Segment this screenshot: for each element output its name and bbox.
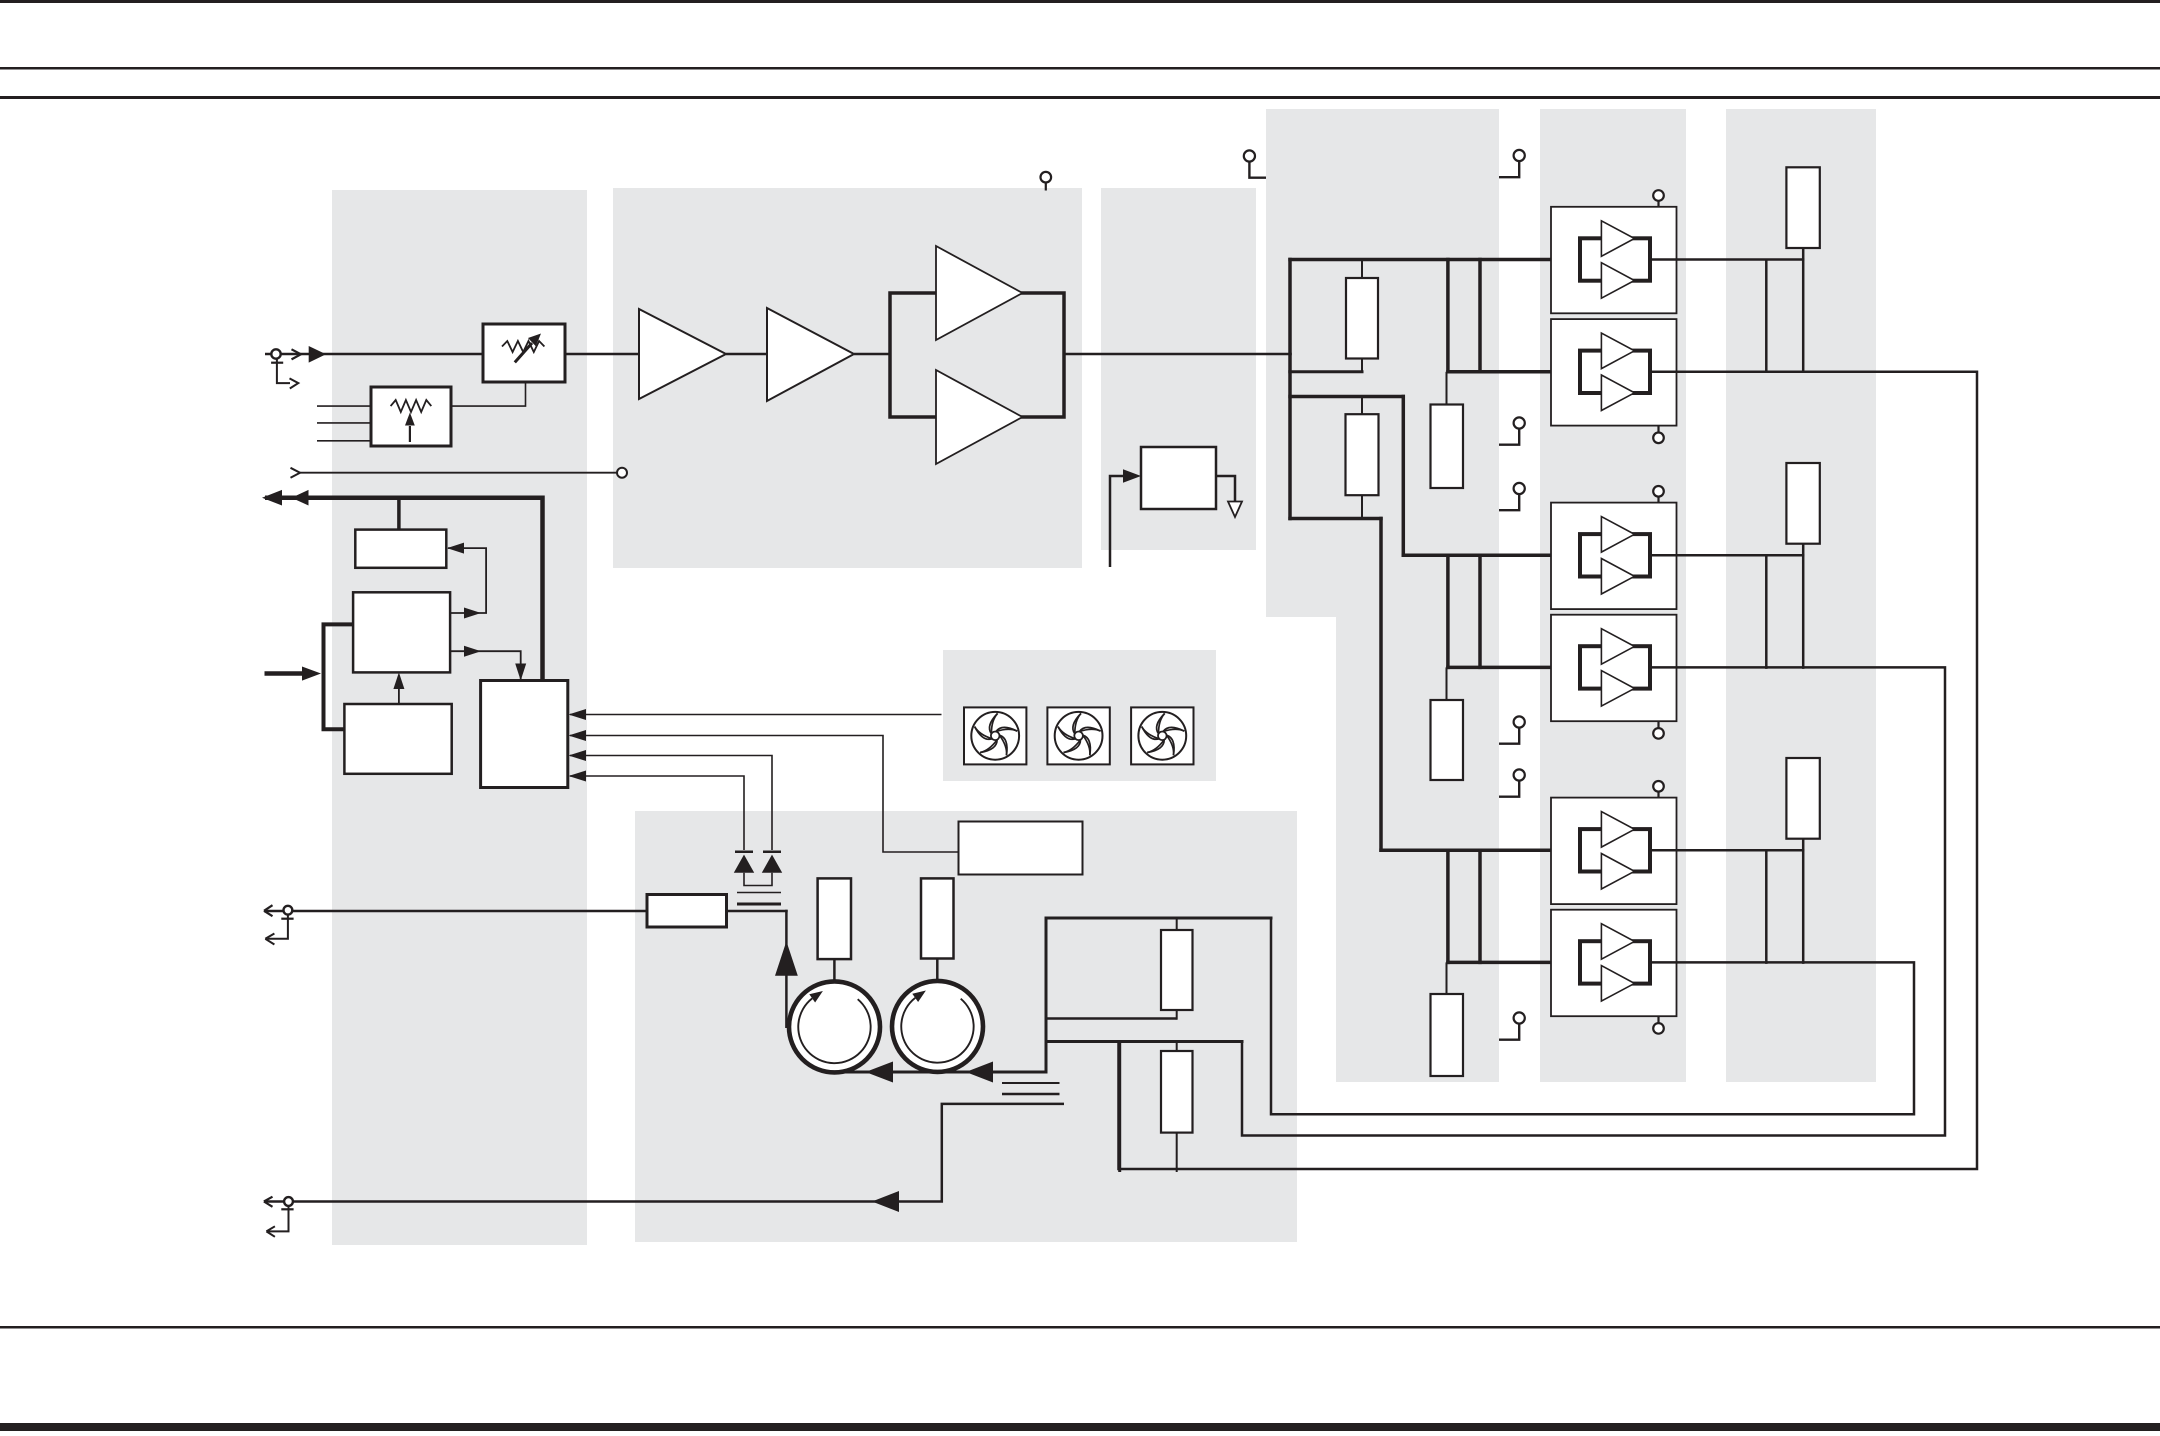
cooling fan B1	[964, 707, 1026, 764]
control box C	[344, 704, 451, 774]
monitor line from fans	[569, 709, 942, 720]
final combiner isolation resistor R10	[1161, 1042, 1193, 1173]
combiner 2 vertical a	[1765, 555, 1768, 669]
PA module U4	[1551, 615, 1677, 722]
final combiner A top bus	[1045, 917, 1273, 920]
splitter main vertical	[1288, 258, 1292, 521]
circulator 1 isolation load	[818, 878, 851, 982]
PA module U5	[1551, 798, 1677, 905]
monitor jack P3	[1499, 483, 1525, 510]
coupler line 1	[737, 892, 781, 894]
pot input line 1	[317, 405, 371, 407]
panel: regulator section	[1101, 188, 1256, 550]
output connector J3	[264, 1197, 294, 1237]
combiner 1 vertical a	[1765, 260, 1768, 374]
panel: circulator section	[635, 811, 1297, 1242]
interface arrow 2	[292, 490, 309, 506]
panel: combiner load column	[1726, 109, 1876, 1082]
pot input line 2	[317, 422, 371, 424]
bias potentiometer box	[371, 387, 451, 446]
final combiner A bottom bus	[1045, 1017, 1177, 1020]
monitor jack P4	[1499, 716, 1525, 743]
diode common return	[744, 873, 772, 886]
input connector J1	[265, 346, 483, 389]
feed bus to third splitter	[1288, 517, 1382, 521]
final combiner B top bus	[1045, 1040, 1244, 1043]
forward power line into circulators	[830, 1071, 1046, 1074]
final combiner A left vertical	[1045, 917, 1048, 1074]
control box A	[355, 530, 446, 568]
external control input arrow	[265, 667, 322, 681]
wire atten to amp1	[565, 353, 639, 356]
pot input line 3	[317, 440, 371, 442]
interface arrow 1	[262, 490, 282, 506]
test point above driver	[1041, 172, 1052, 191]
panel: PA module column	[1540, 109, 1686, 1082]
splitter bus 4 / module 4 feed	[1446, 666, 1580, 670]
test point below module U6	[1653, 1016, 1664, 1034]
splitter vertical a	[1446, 258, 1450, 374]
isolation resistor R4	[1431, 667, 1464, 780]
cooling fan B2	[1047, 707, 1109, 764]
page bottom rule	[0, 1423, 2160, 1431]
pair 2 combined output	[1242, 667, 1945, 1135]
push-pull driver amplifier	[890, 246, 1064, 464]
PA module U6	[1551, 910, 1677, 1017]
isolation resistor R6	[1431, 962, 1464, 1076]
circulator 1	[789, 981, 880, 1072]
splitter bus 6 / module 6 feed	[1446, 961, 1580, 965]
monitor line from diode D2	[569, 750, 773, 850]
control box D	[481, 681, 568, 788]
header rule 2	[0, 96, 2160, 99]
test point above module U5	[1653, 781, 1664, 798]
feed bus to second splitter	[1288, 395, 1405, 399]
detector diode D2	[762, 852, 782, 873]
module 3 output	[1650, 554, 1804, 557]
monitor jack P0	[1244, 150, 1266, 177]
footer rule	[0, 1326, 2160, 1329]
splitter vertical e	[1446, 849, 1450, 965]
monitor jack P2	[1499, 417, 1525, 444]
PA module U1	[1551, 207, 1677, 313]
panel: fan section	[943, 650, 1216, 781]
driver amplifier stage 1	[639, 309, 726, 399]
splitter bus 5 / module 5 feed	[1379, 849, 1580, 853]
isolation resistor R1	[1346, 260, 1378, 374]
bundle mark line 2	[1002, 1093, 1060, 1096]
control interface bus	[265, 498, 543, 681]
test point below module U2	[1653, 426, 1664, 444]
detector diode D1	[734, 852, 754, 873]
isolation resistor R3	[1346, 397, 1379, 519]
RF output line	[264, 910, 647, 913]
test point below module U4	[1653, 721, 1664, 739]
status line with test point	[291, 468, 628, 478]
test point above module U3	[1653, 486, 1664, 503]
coupler line 2	[737, 903, 781, 906]
splitter vertical d	[1478, 554, 1482, 670]
wire B to D	[450, 646, 526, 681]
monitor line from diode D1	[569, 771, 745, 851]
panel: control section	[332, 190, 587, 1245]
flow arrow on forward line	[866, 1062, 894, 1083]
output low-pass filter	[647, 895, 727, 928]
flow arrow on reflected line	[872, 1191, 899, 1212]
bundle mark line 1	[1002, 1082, 1060, 1084]
PA module U3	[1551, 503, 1677, 609]
regulator input wire	[1110, 469, 1141, 567]
pot wiper wire	[451, 382, 526, 406]
combiner 3 vertical a	[1765, 850, 1768, 964]
splitter bus 1 / module 1 feed	[1288, 258, 1580, 262]
splitter bus 2 / module 2 feed	[1446, 370, 1580, 374]
feedback B to A	[447, 543, 486, 619]
wire C to B	[393, 672, 404, 704]
output connector J2	[264, 905, 294, 944]
circulator 2	[892, 981, 983, 1072]
circulator 2 isolation load	[921, 878, 954, 981]
voltage regulator box	[1141, 447, 1216, 509]
splitter bus 3 / module 3 feed	[1402, 554, 1580, 558]
splitter vertical b	[1478, 258, 1482, 374]
module 1 output	[1650, 258, 1804, 261]
panel: splitter section	[1266, 109, 1499, 1082]
reflected power line	[264, 1104, 1064, 1202]
splitter vertical f	[1478, 849, 1482, 965]
monitor jack P5	[1499, 769, 1525, 796]
flow arrow on forward line 2	[966, 1062, 993, 1083]
wire amp2 to push-pull driver	[854, 353, 890, 356]
splitter bus 2 left stub	[1288, 370, 1363, 373]
final combiner B left vertical	[1118, 1042, 1121, 1173]
combiner 3 vertical b	[1802, 839, 1805, 964]
monitor jack P1	[1499, 150, 1525, 177]
balance load R8	[1786, 758, 1819, 839]
combiner 1 vertical b	[1802, 248, 1805, 373]
combiner 2 vertical b	[1802, 544, 1805, 669]
pair 1 combined output	[1119, 372, 1978, 1169]
second splitter drop	[1402, 395, 1406, 557]
balance load R7	[1786, 463, 1819, 544]
monitor jack P6	[1499, 1012, 1525, 1039]
third splitter drop	[1379, 517, 1383, 852]
detector box	[959, 822, 1083, 875]
variable attenuator	[483, 324, 565, 382]
flow arrow into circulator	[775, 941, 798, 976]
wire interface to box A	[397, 499, 401, 530]
control box B	[353, 592, 450, 672]
panel: driver amplifier section	[613, 188, 1082, 568]
wire filter to circulator	[785, 910, 788, 1028]
bracket B C	[324, 624, 354, 729]
PA module U2	[1551, 319, 1677, 426]
pair 3 combined output	[1271, 917, 1914, 1115]
splitter vertical c	[1446, 554, 1450, 670]
driver amplifier stage 2	[767, 308, 854, 401]
monitor line from detector box	[569, 730, 959, 852]
cooling fan B3	[1131, 707, 1193, 764]
balance load R5	[1786, 167, 1819, 248]
header rule 1	[0, 67, 2160, 70]
module 5 output	[1650, 849, 1804, 852]
wire driver output to splitter	[1064, 353, 1292, 356]
wire amp1 to amp2	[726, 353, 767, 356]
final combiner isolation resistor R9	[1161, 918, 1193, 1020]
regulator output to ground	[1216, 476, 1242, 517]
page top rule	[0, 0, 2160, 3]
test point above module U1	[1653, 190, 1664, 207]
isolation resistor R2	[1431, 372, 1464, 488]
